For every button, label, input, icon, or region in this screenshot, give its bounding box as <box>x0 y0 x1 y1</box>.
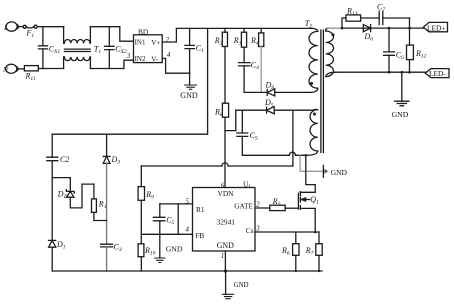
HV rail <box>176 27 312 29</box>
transformer T2 secondary <box>326 28 336 77</box>
svg-text:R9: R9 <box>145 190 154 201</box>
svg-text:32941: 32941 <box>217 217 236 226</box>
output wire from secondary <box>328 27 342 29</box>
svg-text:C6: C6 <box>396 50 404 61</box>
ground arrow aux <box>300 156 328 177</box>
svg-text:V-: V- <box>151 56 158 64</box>
capacitor C1 <box>185 28 194 73</box>
svg-text:R6: R6 <box>281 246 290 257</box>
svg-text:D3: D3 <box>111 155 121 166</box>
svg-text:2: 2 <box>166 37 170 44</box>
svg-text:R7: R7 <box>305 246 314 257</box>
wire T1 to CX2 bottom <box>90 68 124 70</box>
svg-text:1: 1 <box>221 253 224 260</box>
resistor R7 <box>316 232 322 271</box>
svg-text:C2: C2 <box>60 155 69 164</box>
wire HV rail to left block <box>52 28 207 134</box>
IC U1 32941 <box>193 188 256 252</box>
resistor R3 <box>241 28 246 62</box>
sense wire from aux node down-left to R9 (hop over VDN line) <box>141 110 293 186</box>
junction dots <box>295 27 411 272</box>
svg-text:N: N <box>2 65 9 74</box>
svg-text:4: 4 <box>186 227 190 234</box>
MOSFET Q1 <box>298 192 315 233</box>
svg-text:U1: U1 <box>243 179 251 190</box>
IC pin 1 wire <box>224 251 226 271</box>
T2 aux dot <box>313 113 316 116</box>
svg-text:GND: GND <box>234 282 249 289</box>
capacitor C5 aux <box>237 110 248 155</box>
svg-text:R11: R11 <box>25 72 36 83</box>
diode D6 <box>363 25 370 32</box>
svg-text:6: 6 <box>221 182 225 189</box>
resistor R10 <box>138 244 144 257</box>
wire to BD IN1 <box>120 27 134 42</box>
LED- wire <box>336 71 425 73</box>
svg-text:R1: R1 <box>196 205 205 214</box>
snubber branch <box>342 18 346 28</box>
svg-text:D8: D8 <box>265 81 275 92</box>
diode D5 <box>236 107 313 114</box>
wire N to CX1 <box>38 68 43 70</box>
resistor R8 <box>222 47 228 188</box>
capacitor C2 <box>47 134 58 240</box>
svg-text:Cs: Cs <box>246 226 254 235</box>
svg-text:VDN: VDN <box>218 189 235 198</box>
svg-text:LED+: LED+ <box>427 24 446 33</box>
svg-text:C5: C5 <box>166 216 174 227</box>
svg-text:C5: C5 <box>250 131 258 142</box>
svg-text:R3: R3 <box>233 36 242 47</box>
svg-text:R5: R5 <box>272 197 281 208</box>
transformer T2 primary <box>309 28 318 92</box>
resistor R6 <box>293 232 299 271</box>
svg-text:LED-: LED- <box>429 69 446 78</box>
wire VDN to D5 node <box>225 110 236 130</box>
svg-text:D6: D6 <box>364 32 374 43</box>
resistor R12 <box>407 18 414 72</box>
svg-text:3: 3 <box>255 226 260 233</box>
resistor R9 <box>138 187 144 201</box>
wire bottom rail <box>52 270 322 272</box>
svg-text:L: L <box>3 23 8 32</box>
svg-text:T1: T1 <box>94 44 101 55</box>
branch wire pins 5-4 <box>177 204 179 234</box>
resistor R11 <box>24 66 38 71</box>
svg-text:Q1: Q1 <box>310 195 319 206</box>
resistor R5 (gate) <box>255 205 298 210</box>
wire BD V- <box>162 58 189 73</box>
svg-text:CX1: CX1 <box>49 45 61 56</box>
terminal LED+ <box>423 22 447 31</box>
terminal L <box>6 22 23 31</box>
capacitor C4 <box>239 63 250 93</box>
wire C5 bottom to aux winding (hop over sense line) <box>242 154 305 156</box>
svg-text:GATE: GATE <box>234 202 253 211</box>
zener diode Dz <box>52 178 94 208</box>
capacitor CX1 <box>39 27 48 69</box>
transformer T2 aux winding <box>306 109 318 155</box>
capacitor C7 <box>379 11 409 24</box>
svg-text:GND: GND <box>180 91 198 100</box>
svg-text:BD: BD <box>138 28 149 37</box>
svg-text:V+: V+ <box>151 39 160 47</box>
terminal N <box>6 64 25 73</box>
resistor R4 <box>259 28 264 92</box>
svg-text:R12: R12 <box>415 49 427 60</box>
ground output <box>395 72 409 106</box>
svg-text:C7: C7 <box>377 2 385 13</box>
svg-text:C4: C4 <box>251 61 259 72</box>
svg-text:C3: C3 <box>114 243 122 254</box>
capacitor CX2 <box>105 27 114 69</box>
diode D8 <box>244 89 309 96</box>
svg-text:D1: D1 <box>56 240 66 251</box>
wire bottom rail input <box>43 68 64 70</box>
T2 core <box>321 30 324 153</box>
svg-text:R13: R13 <box>346 7 358 18</box>
svg-text:C1: C1 <box>196 44 204 55</box>
svg-text:R8: R8 <box>214 108 223 119</box>
wire top rail input <box>43 26 64 28</box>
svg-text:3: 3 <box>126 53 131 60</box>
svg-text:R4: R4 <box>250 36 259 47</box>
svg-text:2: 2 <box>256 201 260 208</box>
terminal LED- <box>425 69 449 78</box>
svg-text:4: 4 <box>167 52 171 59</box>
wire BD V+ to HV rail <box>162 28 176 42</box>
svg-text:GND: GND <box>217 241 234 250</box>
T2 secondary dot <box>332 33 335 36</box>
IC pin 3 Cs net <box>255 231 319 233</box>
MOSFET Q1 drain wire <box>306 155 315 192</box>
svg-text:T2: T2 <box>305 19 312 30</box>
wire T1 to CX2 top <box>90 26 119 28</box>
svg-text:R1: R1 <box>98 199 107 210</box>
wire to BD IN2 <box>124 60 134 68</box>
capacitor C6 <box>384 28 395 72</box>
bridge rectifier BD <box>134 35 163 63</box>
IC pin 5 net <box>160 203 193 205</box>
svg-text:5: 5 <box>186 198 190 205</box>
T2 primary dot <box>310 82 313 85</box>
capacitor C5 fb <box>153 204 164 234</box>
svg-text:IN2: IN2 <box>135 55 146 63</box>
fuse F1 <box>23 25 43 28</box>
svg-text:R10: R10 <box>144 246 156 256</box>
resistor R2 <box>222 28 227 46</box>
junction dot pin1/rail <box>224 269 227 272</box>
choke T1 <box>64 27 91 69</box>
resistor R13 <box>346 15 361 21</box>
ground main <box>222 271 233 299</box>
svg-text:D5: D5 <box>264 98 274 109</box>
svg-text:IN1: IN1 <box>135 38 146 46</box>
resistor R1 <box>92 184 107 220</box>
svg-text:FB: FB <box>195 231 204 240</box>
svg-text:R2: R2 <box>214 36 223 47</box>
svg-text:F1: F1 <box>26 29 35 40</box>
svg-text:GND: GND <box>166 245 183 254</box>
ground under BD <box>185 73 197 89</box>
svg-text:GND: GND <box>331 168 348 177</box>
diode D1 <box>49 240 56 271</box>
ground fb <box>155 234 165 262</box>
svg-text:GND: GND <box>392 110 409 119</box>
svg-text:CX2: CX2 <box>115 45 127 56</box>
capacitor C3 <box>101 244 113 271</box>
IC pin 4 FB net <box>141 233 192 235</box>
diode D3 <box>103 134 110 244</box>
